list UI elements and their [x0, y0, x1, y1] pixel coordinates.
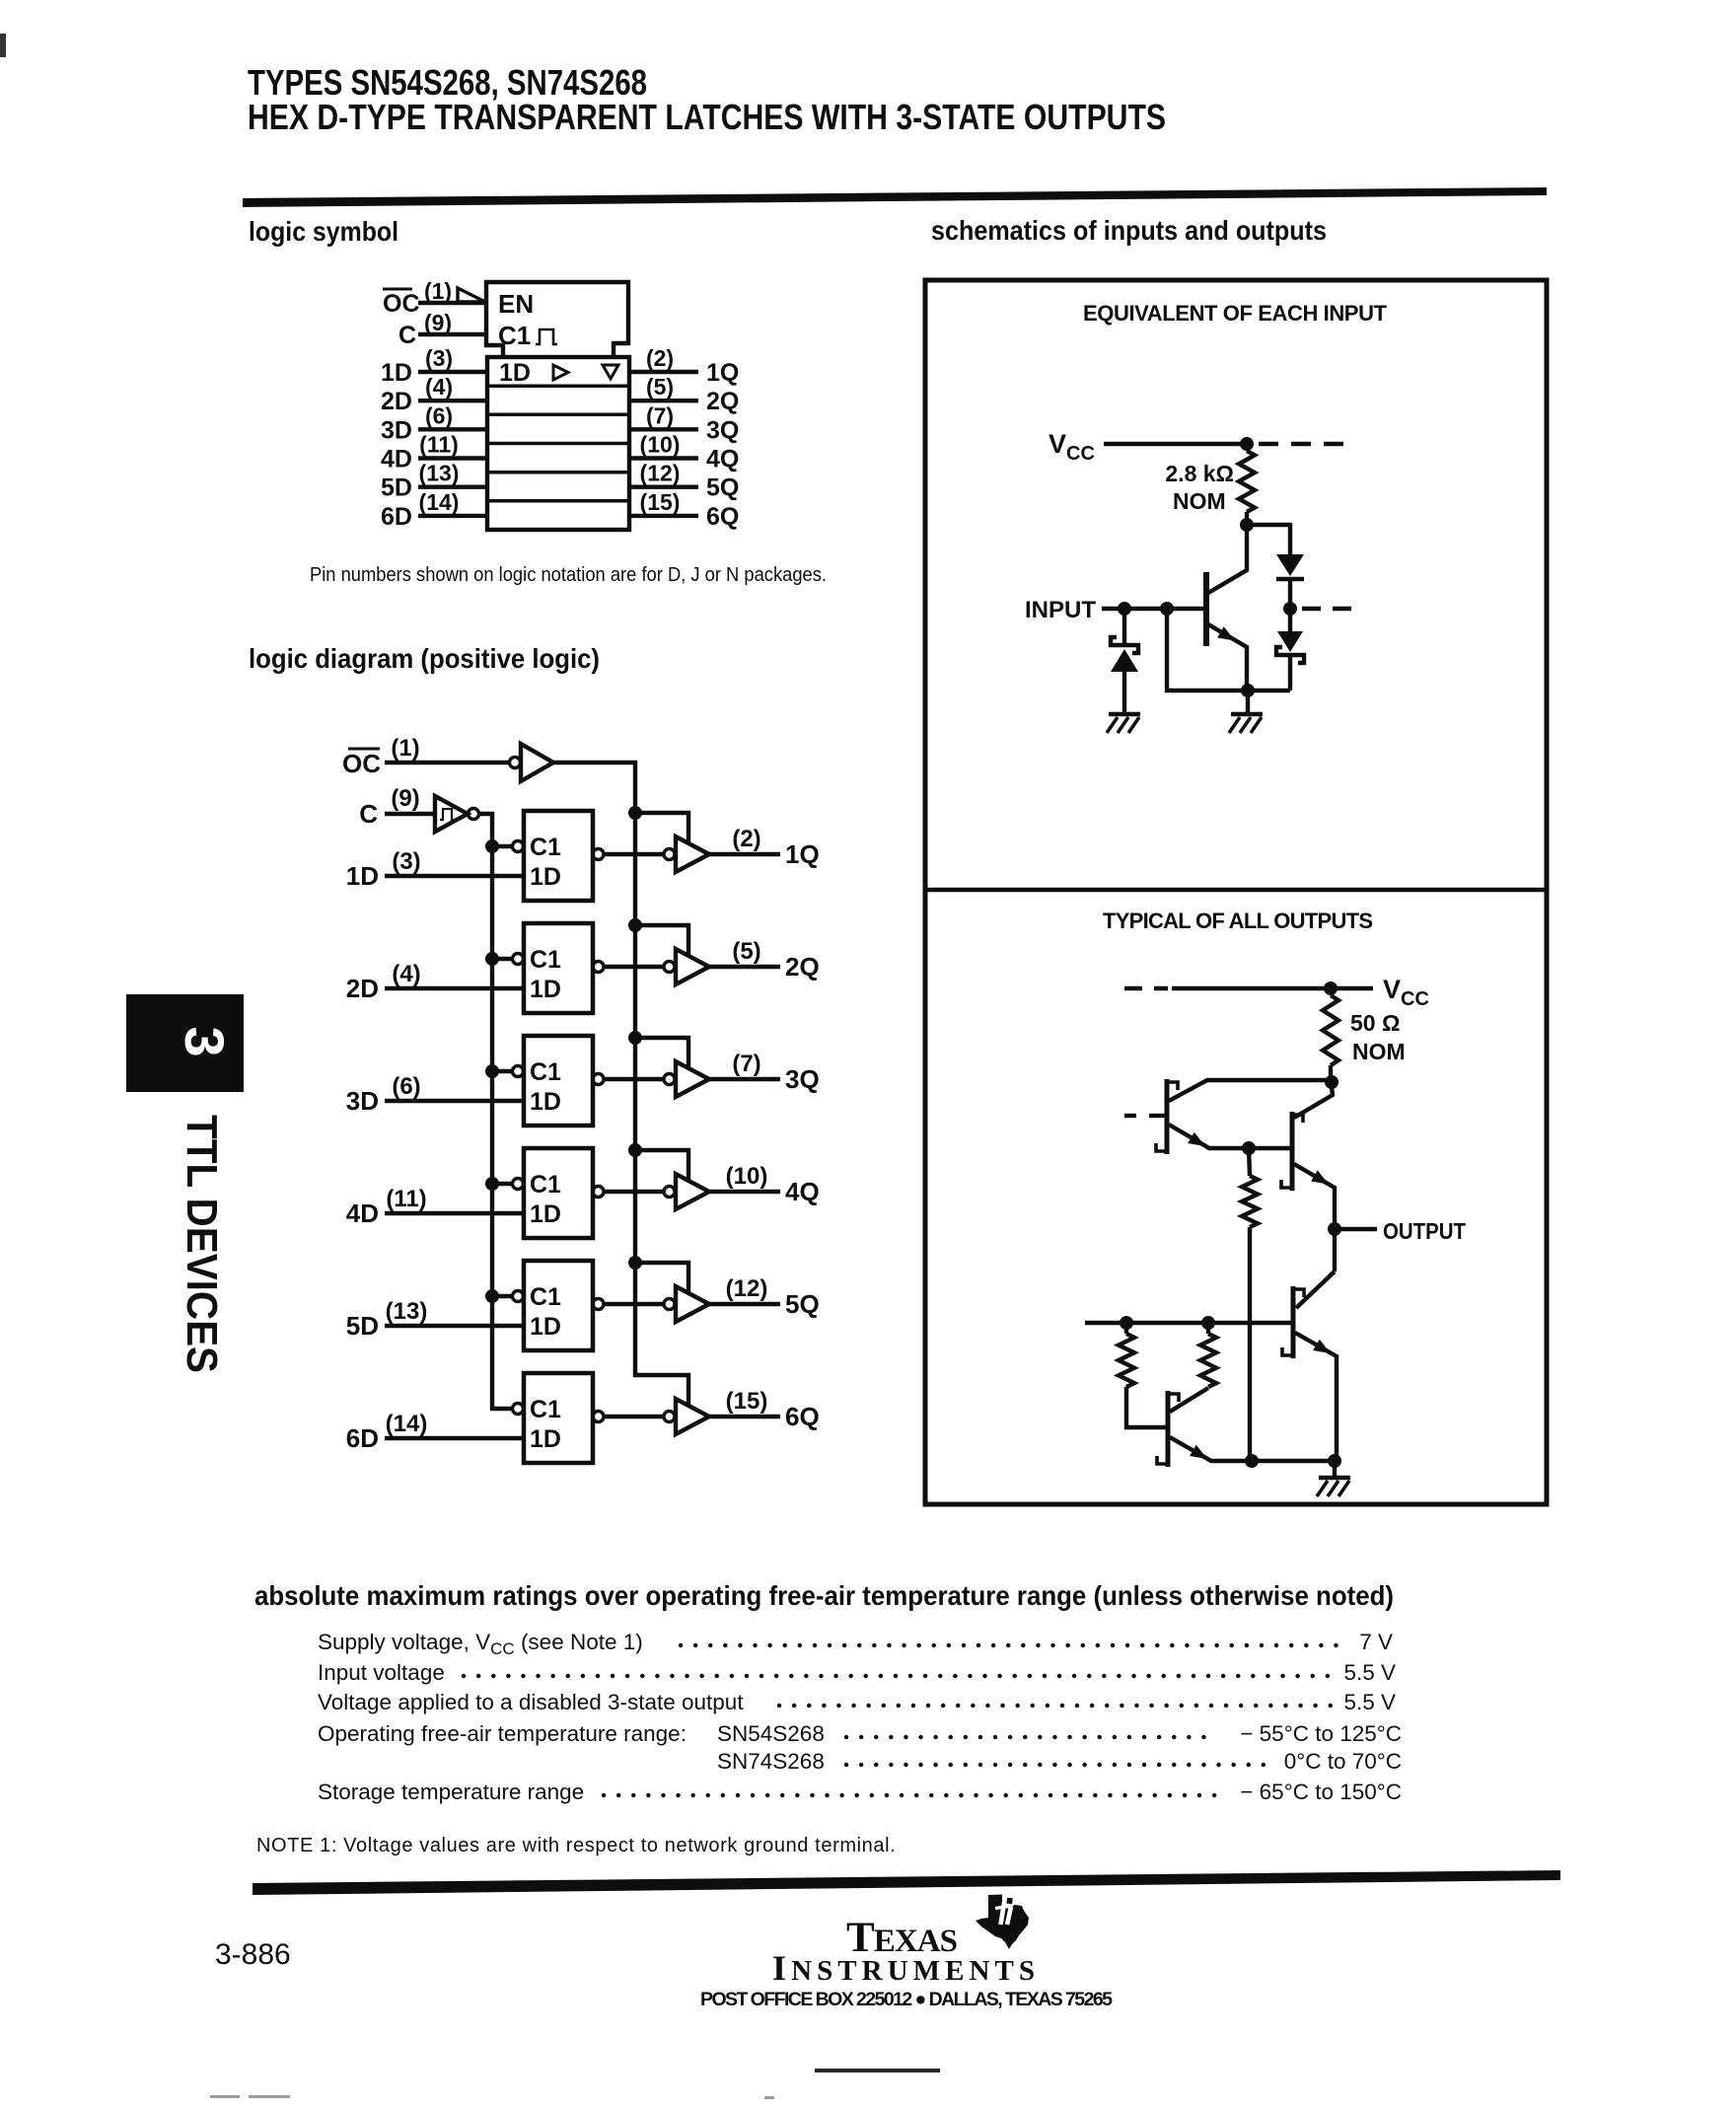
svg-text:C: C [398, 322, 416, 349]
row1 3-state triangle symbol [603, 365, 618, 379]
enable rail from OC buffer [553, 763, 688, 1407]
Q4 base rail [1085, 1321, 1291, 1325]
2Q output line pin (5) [709, 965, 780, 969]
wire node A down to clamp diode [1122, 609, 1126, 643]
control block notch stubs [503, 341, 614, 359]
svg-text:4Q: 4Q [785, 1177, 820, 1206]
C inverter output bubble [469, 809, 479, 820]
C inverter triangle U2 with pulse symbol [435, 796, 468, 832]
symbol 3D input line pin (6) [418, 427, 487, 431]
svg-text:4D: 4D [346, 1199, 379, 1228]
Q5 emitter with arrow [1170, 1437, 1252, 1461]
latch L4 box [524, 1148, 593, 1238]
enable tap to buffer B2 [635, 925, 688, 956]
enable tap to buffer B3 [635, 1038, 688, 1068]
svg-text:6D: 6D [381, 503, 412, 531]
diode D1 [1276, 554, 1304, 576]
svg-text:Supply voltage, VCC (see Note: Supply voltage, VCC (see Note 1) [318, 1630, 643, 1658]
svg-text:(6): (6) [392, 1073, 420, 1100]
symbol 5D input line pin (13) [418, 485, 487, 489]
OC inverter input line pin (1) [385, 761, 510, 764]
Vcc junction node [1240, 437, 1254, 451]
section tab black square [126, 994, 244, 1092]
schottky clamp diode D3 [1111, 637, 1138, 653]
svg-text:1Q: 1Q [706, 359, 739, 387]
svg-text:(13): (13) [386, 1298, 428, 1325]
latch L4 output bubble and wire [593, 1187, 604, 1198]
wire OUTPUT down to Q4 [1333, 1229, 1337, 1272]
row1 buffer triangle symbol [553, 365, 568, 380]
clock rail tap + junction for L5 [492, 1294, 512, 1298]
OC polarity triangle [458, 288, 485, 302]
svg-text:(3): (3) [425, 345, 453, 371]
enable tap to buffer B1 [635, 813, 688, 843]
svg-text:C1: C1 [530, 1058, 561, 1086]
latch L1 box [524, 811, 593, 901]
latch L1 output bubble and wire [593, 849, 604, 860]
svg-text:Operating free-air temperature: Operating free-air temperature range: [318, 1721, 687, 1746]
svg-text:absolute maximum ratings over: absolute maximum ratings over operating … [254, 1580, 1394, 1611]
3Q output line pin (7) [709, 1077, 780, 1081]
latch L3 box [524, 1036, 593, 1126]
latch L6 C1 bubble [513, 1404, 524, 1415]
svg-text:SN74S268: SN74S268 [717, 1749, 825, 1774]
latch L4 C1 bubble [513, 1179, 524, 1190]
latch L1 C1 bubble [513, 841, 524, 852]
svg-text:EQUIVALENT OF EACH INPUT: EQUIVALENT OF EACH INPUT [1083, 301, 1388, 326]
C inverter input line pin (9) [385, 812, 435, 816]
bottom rule [253, 1870, 1560, 1895]
bottom rail [1252, 1459, 1337, 1463]
svg-text:5D: 5D [346, 1311, 379, 1341]
svg-text:C1: C1 [530, 1283, 561, 1311]
symbol 5Q output line pin (12) [629, 485, 698, 489]
svg-text:2D: 2D [346, 974, 379, 1003]
latch L3 output bubble and wire [593, 1074, 604, 1085]
Q5 collector [1170, 1388, 1208, 1412]
svg-text:(1): (1) [391, 735, 419, 762]
latch L2 C1 bubble [513, 954, 524, 965]
transistor Q2 (upper left) base bar [1165, 1079, 1170, 1154]
svg-text:6Q: 6Q [706, 503, 739, 531]
svg-text:POST OFFICE BOX 225012 ● DAL: POST OFFICE BOX 225012 ● DALLAS, TEXAS 7… [700, 1989, 1113, 2010]
wire bottom node to ground [1246, 691, 1250, 713]
svg-text:0°C to 70°C: 0°C to 70°C [1284, 1749, 1402, 1774]
5D input line pin (13) [385, 1324, 524, 1328]
svg-text:Pin numbers shown on logic not: Pin numbers shown on logic notation are … [310, 563, 827, 586]
transistor Q4 (lower right) base bar [1291, 1286, 1296, 1358]
svg-text:Storage temperature range: Storage temperature range [318, 1780, 584, 1804]
svg-text:(11): (11) [386, 1186, 426, 1212]
6D input line pin (14) [385, 1436, 524, 1440]
svg-text:OUTPUT: OUTPUT [1383, 1218, 1467, 1244]
svg-text:4D: 4D [381, 446, 412, 473]
svg-text:6D: 6D [346, 1423, 379, 1453]
latch L5 C1 bubble [513, 1291, 524, 1302]
output buffer B5 bubble [664, 1299, 675, 1310]
svg-text:6Q: 6Q [785, 1402, 820, 1431]
svg-text:NOM: NOM [1352, 1039, 1406, 1064]
Vcc continuation dashes [1259, 442, 1353, 446]
svg-text:3Q: 3Q [785, 1064, 820, 1094]
node continuation dashes [1302, 607, 1353, 611]
latch L2 box [524, 923, 593, 1013]
svg-text:(9): (9) [424, 310, 452, 335]
wire clamp to ground [1122, 672, 1126, 713]
svg-text:1D: 1D [530, 1313, 561, 1341]
node below 50 ohm [1325, 1075, 1338, 1089]
svg-text:(3): (3) [392, 848, 420, 875]
svg-text:(5): (5) [646, 374, 674, 400]
svg-text:(2): (2) [732, 826, 760, 852]
svg-text:NOM: NOM [1173, 488, 1226, 514]
latch L5 box [524, 1261, 593, 1350]
symbol 6Q output line pin (15) [629, 514, 698, 518]
symbol 1D input line pin (3) [418, 370, 487, 374]
enable tap to buffer B4 [635, 1150, 688, 1181]
svg-text:HEX D-TYPE TRANSPARENT LATCHES: HEX D-TYPE TRANSPARENT LATCHES WITH 3-ST… [248, 97, 1166, 137]
svg-text:1D: 1D [381, 359, 412, 387]
svg-text:C1: C1 [498, 321, 531, 350]
left resistor R3 [1124, 1323, 1128, 1334]
transistor Q3 (upper right) base bar [1290, 1112, 1295, 1191]
2D input line pin (4) [385, 986, 524, 990]
OC buffer triangle U1 [521, 744, 553, 781]
svg-text:TTL DEVICES: TTL DEVICES [178, 1115, 226, 1373]
svg-text:1D: 1D [499, 359, 531, 387]
input node B [1160, 602, 1174, 616]
svg-text:(10): (10) [726, 1163, 768, 1190]
base rail node B [1201, 1316, 1215, 1330]
Q2 emitter with arrow [1169, 1125, 1249, 1148]
TI logo Texas map [976, 1894, 1029, 1949]
resistor 50 ohm [1323, 995, 1338, 1065]
wire node to diode chain [1247, 525, 1290, 554]
svg-text:5.5 V: 5.5 V [1343, 1690, 1396, 1714]
schottky diode D2 [1277, 631, 1303, 652]
latch L6 output bubble and wire [593, 1412, 604, 1422]
latch L6 box [524, 1373, 593, 1463]
svg-text:7 V: 7 V [1359, 1630, 1393, 1654]
svg-text:5D: 5D [381, 474, 412, 502]
svg-text:(2): (2) [646, 345, 674, 371]
output buffer B1 bubble [664, 849, 675, 860]
svg-text:4Q: 4Q [706, 446, 739, 473]
right resistor R4 [1206, 1323, 1210, 1334]
OUTPUT node [1328, 1222, 1341, 1236]
svg-text:Input voltage: Input voltage [318, 1660, 445, 1685]
control block EN/C1 outline [486, 282, 628, 345]
node Q2e/Q3b [1242, 1141, 1256, 1155]
output buffer B4 bubble [664, 1187, 675, 1198]
divider between input/output sections [925, 888, 1547, 892]
wire D2 down to bottom node [1288, 655, 1292, 691]
enable tap to buffer B5 [635, 1263, 688, 1293]
svg-text:3D: 3D [346, 1086, 379, 1116]
Q4 emitter with arrow [1295, 1333, 1337, 1460]
svg-text:EN: EN [498, 289, 534, 319]
array row dividers [487, 384, 629, 388]
output buffer B3 triangle [676, 1061, 709, 1097]
wire to ground [1333, 1461, 1337, 1477]
ground (input clamp) [1109, 712, 1140, 716]
1D input line pin (3) [385, 874, 524, 878]
clock rail tap + junction for L2 [492, 957, 512, 961]
svg-text:1D: 1D [530, 1200, 561, 1228]
input transistor Q1 base bar [1203, 572, 1209, 646]
3D input line pin (6) [385, 1099, 524, 1103]
5Q output line pin (12) [709, 1302, 780, 1306]
svg-text:schematics of inputs and outpu: schematics of inputs and outputs [931, 215, 1327, 246]
Q1 emitter with arrow [1208, 624, 1247, 691]
ground (input circuit) [1231, 712, 1263, 716]
wire D1 to node [1288, 579, 1292, 604]
schematics outer box [925, 280, 1547, 1504]
svg-text:(9): (9) [391, 785, 419, 812]
svg-text:VCC: VCC [1383, 975, 1429, 1010]
svg-text:(15): (15) [726, 1388, 768, 1415]
clock rail tap + junction for L4 [492, 1182, 512, 1186]
svg-text:TEXAS: TEXAS [846, 1915, 958, 1961]
symbol 2D input line pin (4) [418, 399, 487, 402]
wire node to D2 [1288, 609, 1292, 631]
svg-text:2D: 2D [381, 388, 412, 415]
svg-text:C: C [359, 799, 378, 829]
svg-text:(5): (5) [732, 938, 760, 965]
OC input line (pin 1) [418, 301, 486, 305]
svg-text:1D: 1D [530, 1088, 561, 1116]
input wire [1102, 607, 1203, 612]
output buffer B2 bubble [664, 962, 675, 973]
svg-text:(7): (7) [646, 402, 674, 428]
svg-text:3D: 3D [381, 416, 412, 444]
clock rail C1 [479, 814, 512, 1409]
svg-text:(7): (7) [732, 1051, 760, 1077]
transistor Q5 (lower left) base bar [1166, 1391, 1171, 1467]
Q3 base wire [1249, 1146, 1290, 1150]
wire node B down and to bottom node [1167, 609, 1290, 691]
svg-text:50 Ω: 50 Ω [1350, 1010, 1400, 1036]
Q2 base dashes [1124, 1114, 1136, 1118]
svg-text:C1: C1 [530, 834, 561, 861]
Q1 collector [1208, 525, 1247, 593]
symbol 6D input line pin (14) [418, 514, 487, 518]
6Q output line pin (15) [709, 1415, 780, 1418]
top rule [243, 187, 1547, 207]
input node A [1118, 602, 1131, 616]
ground (output circuit) [1319, 1476, 1350, 1480]
svg-text:NOTE 1: Voltage values are wi: NOTE 1: Voltage values are with respect … [256, 1835, 896, 1856]
svg-text:SN54S268: SN54S268 [717, 1721, 825, 1746]
svg-text:OC: OC [342, 749, 381, 778]
svg-text:(14): (14) [419, 489, 460, 515]
output buffer B6 triangle [676, 1399, 709, 1434]
symbol 3Q output line pin (7) [629, 427, 698, 431]
Vcc wire [1104, 442, 1247, 446]
svg-text:(15): (15) [640, 489, 681, 515]
bottom rail node A [1245, 1454, 1259, 1468]
svg-text:− 55°C to 125°C: − 55°C to 125°C [1240, 1721, 1402, 1746]
latch array box [487, 357, 629, 530]
svg-text:INPUT: INPUT [1025, 597, 1096, 623]
svg-text:(6): (6) [425, 402, 453, 428]
svg-text:logic symbol: logic symbol [249, 216, 398, 247]
clock rail tap + junction for L1 [492, 844, 512, 848]
middle resistor R2 [1249, 1148, 1250, 1176]
svg-text:C1: C1 [530, 946, 561, 974]
C input line (pin 9) [418, 332, 486, 336]
svg-text:2Q: 2Q [706, 388, 739, 415]
svg-text:3-886: 3-886 [215, 1938, 291, 1971]
svg-text:5Q: 5Q [706, 474, 739, 502]
svg-text:logic diagram (positive logic): logic diagram (positive logic) [249, 643, 600, 674]
1Q output line pin (2) [709, 852, 780, 856]
svg-text:1D: 1D [530, 863, 561, 891]
output buffer B6 bubble [664, 1412, 675, 1422]
svg-text:5Q: 5Q [785, 1289, 820, 1319]
svg-text:(14): (14) [386, 1411, 428, 1437]
scan artifact bottom dashes [210, 2095, 240, 2098]
svg-text:(12): (12) [640, 461, 681, 486]
svg-text:(4): (4) [392, 961, 420, 987]
latch L3 C1 bubble [513, 1066, 524, 1077]
svg-text:− 65°C to 150°C: − 65°C to 150°C [1240, 1780, 1402, 1804]
output buffer B5 triangle [676, 1286, 709, 1322]
resistor 2.8k [1239, 451, 1255, 512]
svg-text:3Q: 3Q [706, 416, 739, 444]
svg-text:5.5 V: 5.5 V [1343, 1660, 1396, 1685]
svg-text:3: 3 [174, 1026, 236, 1056]
svg-text:1D: 1D [346, 861, 379, 891]
OC buffer input bubble [510, 758, 521, 768]
Q3 emitter with arrow [1294, 1164, 1335, 1223]
svg-text:(13): (13) [419, 461, 460, 486]
node below resistor [1240, 518, 1254, 532]
output buffer B1 triangle [676, 836, 709, 872]
output buffer B3 bubble [664, 1074, 675, 1085]
Vcc dashes (output circuit) [1124, 986, 1168, 990]
svg-text:C1: C1 [530, 1171, 561, 1199]
scan artifact line [815, 2069, 940, 2073]
mid diode node [1283, 602, 1297, 616]
Q3 collector [1294, 1087, 1333, 1118]
Vcc wire [1172, 986, 1373, 990]
scan artifact left edge [0, 34, 6, 57]
svg-text:(4): (4) [425, 374, 453, 400]
output buffer B4 triangle [676, 1174, 709, 1209]
svg-text:2Q: 2Q [785, 952, 820, 982]
base rail node A [1120, 1316, 1133, 1330]
svg-text:OC: OC [383, 290, 420, 318]
symbol 4D input line pin (11) [418, 456, 487, 460]
latch L2 output bubble and wire [593, 962, 604, 973]
svg-text:Voltage applied to a disabled: Voltage applied to a disabled 3-state ou… [318, 1690, 744, 1714]
svg-text:2.8 kΩ: 2.8 kΩ [1165, 461, 1234, 486]
output buffer B2 triangle [676, 949, 709, 984]
bottom rail node B [1328, 1454, 1341, 1468]
symbol 4Q output line pin (10) [629, 456, 698, 460]
Q4 collector [1296, 1272, 1335, 1308]
bottom node [1241, 684, 1255, 697]
Q2 collector [1169, 1080, 1332, 1101]
svg-text:1D: 1D [530, 976, 561, 1003]
svg-text:VCC: VCC [1049, 429, 1095, 465]
svg-text:TYPICAL OF ALL OUTPUTS: TYPICAL OF ALL OUTPUTS [1103, 909, 1373, 933]
4D input line pin (11) [385, 1211, 524, 1215]
symbol 2Q output line pin (5) [629, 399, 698, 402]
clock rail tap + junction for L3 [492, 1069, 512, 1073]
latch L5 output bubble and wire [593, 1299, 604, 1310]
Vcc node [1324, 982, 1338, 995]
svg-text:(1): (1) [424, 278, 452, 304]
4Q output line pin (10) [709, 1190, 780, 1194]
svg-text:(10): (10) [640, 432, 681, 458]
symbol 1Q output line pin (2) [629, 370, 698, 374]
svg-text:C1: C1 [530, 1396, 561, 1423]
svg-text:(12): (12) [726, 1275, 768, 1302]
svg-text:(11): (11) [419, 432, 459, 458]
svg-text:1D: 1D [530, 1425, 561, 1453]
svg-text:1Q: 1Q [785, 839, 820, 869]
